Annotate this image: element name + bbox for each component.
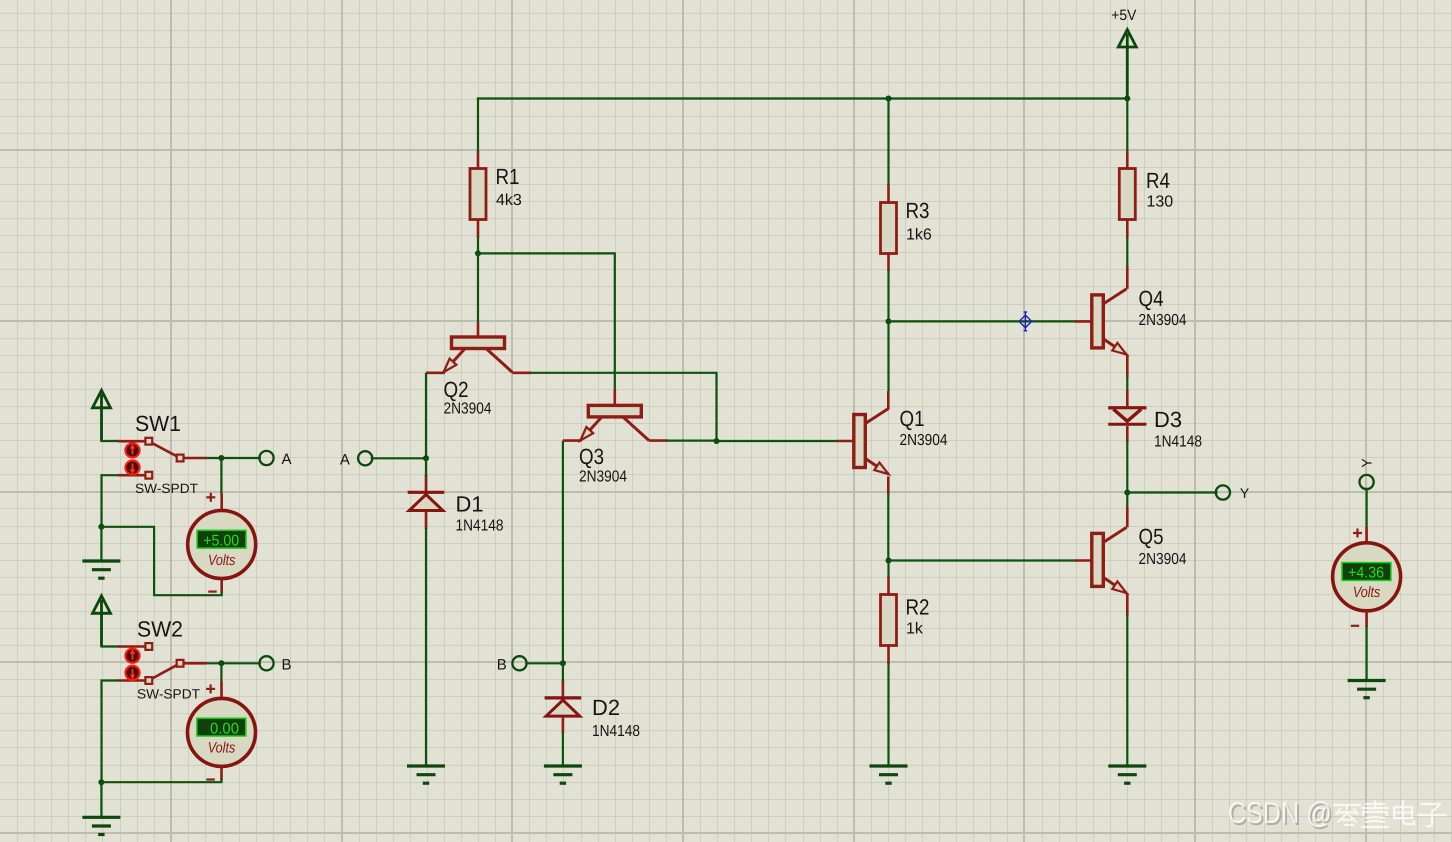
cursor marker xyxy=(1019,312,1032,331)
transistor Q3 xyxy=(579,405,649,485)
voltmeter VM2 (input B) xyxy=(188,698,256,766)
svg-text:D3: D3 xyxy=(1154,407,1182,432)
label B sw xyxy=(282,656,292,673)
wire SW2 common to B xyxy=(207,662,260,664)
junction Q2-Q3 collector node xyxy=(714,438,720,444)
pin Q4 base xyxy=(1075,320,1092,323)
pin VM3 - xyxy=(1365,611,1368,627)
diode D3 xyxy=(1108,407,1202,451)
terminal B (gate input) xyxy=(512,656,526,670)
wire node to Q1 collector xyxy=(887,321,889,391)
svg-text:1k6: 1k6 xyxy=(906,227,932,244)
wire B node to VM2 xyxy=(220,663,222,681)
wire gnd node down2 xyxy=(100,782,102,817)
pin Q2 collector xyxy=(512,371,531,374)
pin Q1 base xyxy=(837,440,855,443)
wire +5V rail xyxy=(478,97,1127,99)
pin VM3 + xyxy=(1365,527,1368,543)
pin VM1 + xyxy=(220,494,223,512)
pin D3 bottom xyxy=(1126,426,1129,442)
svg-text:R4: R4 xyxy=(1146,168,1170,193)
pin Q3 base xyxy=(613,390,616,406)
label Y output xyxy=(1240,485,1250,501)
svg-text:Volts: Volts xyxy=(1353,584,1381,601)
wire rail to R3 xyxy=(887,99,889,185)
pin D1 top xyxy=(425,475,428,492)
terminal B (from SW2) xyxy=(259,656,273,670)
pin R2 bottom xyxy=(887,646,890,665)
svg-text:Q2: Q2 xyxy=(444,377,469,402)
wire node to Q5 base xyxy=(889,559,1075,561)
wire SW1 pin2 to rail xyxy=(102,475,120,527)
transistor Q4 xyxy=(1092,286,1187,354)
watermark xyxy=(1228,797,1446,832)
svg-text:CSDN @: CSDN @ xyxy=(1228,797,1332,830)
svg-text:1N4148: 1N4148 xyxy=(1154,434,1202,451)
svg-text:R1: R1 xyxy=(496,164,520,189)
power SW2 +5V xyxy=(93,596,111,647)
diode D2 xyxy=(545,695,640,740)
junction SW1 gnd node xyxy=(98,524,104,530)
wire VM2 return xyxy=(103,780,222,782)
ground VM3 xyxy=(1348,680,1386,698)
pin Q5 emitter xyxy=(1126,593,1129,616)
svg-text:130: 130 xyxy=(1147,194,1174,211)
pin R3 bottom xyxy=(887,254,890,272)
pin R3 top xyxy=(887,184,890,203)
label A sw xyxy=(282,451,292,468)
svg-text:2N3904: 2N3904 xyxy=(444,401,492,418)
junction B node xyxy=(560,660,566,666)
wire Q2 emitter to A xyxy=(425,374,427,458)
resistor R2 xyxy=(881,595,930,646)
svg-text:Y: Y xyxy=(1240,485,1250,501)
ground D1 xyxy=(407,766,445,784)
svg-text:R2: R2 xyxy=(906,595,930,620)
wire A node to VM1 xyxy=(220,458,222,494)
svg-text:SW-SPDT: SW-SPDT xyxy=(137,687,200,702)
pin Q3 collector xyxy=(649,439,668,442)
ground SW1 xyxy=(82,561,120,579)
wire A node to D1 xyxy=(425,458,427,475)
wire D3 to Y node xyxy=(1126,442,1128,492)
power +5V xyxy=(1111,7,1136,98)
wire Y node to terminal xyxy=(1127,491,1216,493)
wire A terminal to node xyxy=(372,457,426,459)
junction Y node xyxy=(1124,490,1130,496)
svg-text:Q3: Q3 xyxy=(579,444,604,469)
ground SW2 xyxy=(82,817,120,835)
label VM3 minus xyxy=(1351,625,1359,627)
pin R4 top xyxy=(1126,151,1129,170)
svg-text:2N3904: 2N3904 xyxy=(579,469,627,486)
svg-text:1N4148: 1N4148 xyxy=(592,723,640,740)
label VM2 minus xyxy=(206,778,214,780)
wire Q2 collector to Q1 base xyxy=(531,373,836,441)
resistor R1 xyxy=(470,164,522,219)
pin Q5 base xyxy=(1075,559,1092,562)
pin D3 top xyxy=(1126,390,1129,406)
svg-text:1N4148: 1N4148 xyxy=(456,518,504,535)
terminal Y (gate output) xyxy=(1216,485,1230,499)
svg-text:Volts: Volts xyxy=(208,552,236,569)
resistor R4 xyxy=(1119,168,1173,220)
svg-text:1k: 1k xyxy=(906,621,924,638)
ground D2 xyxy=(544,766,582,784)
diode D1 xyxy=(408,492,504,535)
wire R3 to Q1 collector node xyxy=(887,271,889,321)
wire Y node to Q5 collector xyxy=(1126,493,1128,507)
wire power to SW1 pin1 xyxy=(102,440,120,442)
label B input xyxy=(497,656,507,673)
wire R1 to Q2 node xyxy=(477,238,479,253)
wire rail to R4 xyxy=(1126,99,1128,152)
pin Q2 emitter xyxy=(426,371,445,374)
wire R4 to Q4 collector xyxy=(1126,238,1128,266)
wire Q3 collector to node xyxy=(668,440,717,442)
svg-text:Q4: Q4 xyxy=(1139,286,1164,311)
wire Y probe to VM3 xyxy=(1365,489,1367,527)
label VM3 plus xyxy=(1353,529,1362,538)
wire SW2 pin2 to rail xyxy=(102,681,120,783)
junction SW2 gnd node xyxy=(98,779,104,785)
wire SW1 common to A xyxy=(207,457,260,459)
switch SW2 xyxy=(118,617,206,702)
pin D1 bottom xyxy=(425,511,428,529)
pin Q4 collector xyxy=(1126,266,1129,289)
wire node to Q2 base xyxy=(477,253,479,322)
pin VM2 + xyxy=(220,682,223,699)
transistor Q2 xyxy=(444,337,513,418)
transistor Q5 xyxy=(1092,524,1187,593)
label Y rotated xyxy=(1359,458,1375,468)
svg-text:Q5: Q5 xyxy=(1139,524,1164,549)
svg-text:Y: Y xyxy=(1359,458,1375,468)
wire VM1 return xyxy=(103,527,222,595)
terminal A (gate input) xyxy=(358,451,372,465)
junction R1-Q2-Q3 node xyxy=(475,250,481,256)
pin R2 top xyxy=(887,577,890,596)
resistor R3 xyxy=(881,198,932,253)
svg-text:R3: R3 xyxy=(906,198,930,223)
svg-text:2N3904: 2N3904 xyxy=(1139,312,1187,329)
svg-text:D2: D2 xyxy=(592,695,620,720)
pin Q3 emitter xyxy=(563,439,582,442)
pin Q5 collector xyxy=(1126,507,1129,528)
junction SW2 B node xyxy=(218,660,224,666)
wire node to R2 xyxy=(887,561,889,577)
terminal Y probe xyxy=(1360,475,1374,489)
label VM2 plus xyxy=(206,684,215,693)
power SW1 +5V xyxy=(93,390,111,441)
pin R4 bottom xyxy=(1126,220,1129,239)
junction SW1 A node xyxy=(218,455,224,461)
junction Q1 emitter node xyxy=(886,558,892,564)
svg-text:Volts: Volts xyxy=(208,740,236,757)
switch SW1 xyxy=(118,411,206,496)
svg-text:SW-SPDT: SW-SPDT xyxy=(135,481,198,496)
wire Q1 emitter to node xyxy=(887,494,889,561)
ground R2 xyxy=(870,766,908,784)
transistor Q1 xyxy=(854,406,948,474)
svg-text:Q1: Q1 xyxy=(900,406,925,431)
wire B terminal to node xyxy=(526,662,563,664)
pin Q4 emitter xyxy=(1126,354,1129,377)
svg-text:SW2: SW2 xyxy=(137,617,183,642)
junction rail-R4 xyxy=(1124,96,1130,102)
junction A node xyxy=(423,455,429,461)
junction R3-Q1-Q4 node xyxy=(886,318,892,324)
terminal A (from SW1) xyxy=(259,451,273,465)
pin VM2 - xyxy=(220,766,223,780)
pin Q1 collector xyxy=(887,391,890,409)
svg-text:+5V: +5V xyxy=(1111,7,1136,24)
svg-text:2N3904: 2N3904 xyxy=(900,432,948,449)
wire VM3 to ground xyxy=(1365,627,1367,681)
wire rail to R1 xyxy=(477,99,479,152)
wire D1 to ground xyxy=(425,529,427,766)
svg-text:SW1: SW1 xyxy=(135,411,181,436)
wire power to SW2 pin1 xyxy=(102,645,120,647)
wire node to Q4 base xyxy=(889,320,1075,322)
svg-text:0.00: 0.00 xyxy=(210,720,239,737)
svg-text:D1: D1 xyxy=(456,492,484,517)
pin Q1 emitter xyxy=(887,476,890,494)
pin R1 top xyxy=(477,151,480,170)
svg-text:A: A xyxy=(282,451,292,468)
label VM1 plus xyxy=(206,493,215,502)
label A input xyxy=(340,451,350,468)
voltmeter VM3 (output Y) xyxy=(1333,543,1401,611)
wire gnd node down xyxy=(100,527,102,561)
wire Q3 emitter to B xyxy=(562,442,564,664)
wire R2 to ground xyxy=(887,664,889,766)
svg-text:4k3: 4k3 xyxy=(496,192,522,209)
svg-text:+5.00: +5.00 xyxy=(203,532,239,549)
pin R1 bottom xyxy=(477,220,480,239)
wire Q4 emitter to D3 xyxy=(1126,378,1128,391)
pin Q2 base xyxy=(477,323,480,339)
ground Q5 xyxy=(1108,766,1146,784)
junction rail-R3 xyxy=(886,96,892,102)
label VM1 minus xyxy=(208,590,216,592)
svg-text:2N3904: 2N3904 xyxy=(1139,551,1187,568)
svg-text:+4.36: +4.36 xyxy=(1348,565,1384,582)
svg-text:B: B xyxy=(497,656,507,673)
pin D2 bottom xyxy=(562,716,565,733)
wire node to Q3 base xyxy=(478,253,615,389)
wire Q5 emitter to ground xyxy=(1126,616,1128,767)
svg-text:B: B xyxy=(282,656,292,673)
wire B node to D2 xyxy=(562,663,564,680)
pin D2 top xyxy=(562,680,565,698)
svg-text:A: A xyxy=(340,451,350,468)
wire D2 to ground xyxy=(562,733,564,766)
voltmeter VM1 (input A) xyxy=(188,511,256,579)
pin VM1 - xyxy=(220,579,223,594)
